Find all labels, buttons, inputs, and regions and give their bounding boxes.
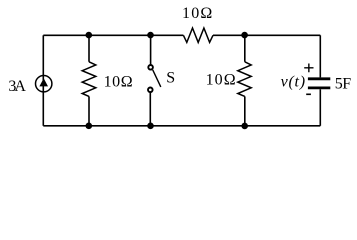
resistor R3 10ohm (vertical) (238, 62, 251, 97)
wire R3 bottom lead (244, 96, 246, 125)
svg-text:S: S (166, 70, 175, 87)
switch S top terminal (148, 65, 153, 70)
junction dot bottom of R3 (241, 123, 248, 130)
wire R1 bottom lead (88, 96, 90, 125)
svg-text:5F: 5F (335, 75, 351, 92)
wire switch top lead (150, 35, 152, 64)
top wire (left corner to horizontal resistor) (43, 34, 183, 36)
svg-text:10Ω: 10Ω (104, 74, 133, 91)
wire switch bottom lead (149, 93, 151, 126)
polarity plus sign (304, 64, 313, 73)
junction dot top of switch (147, 32, 154, 39)
switch S bottom terminal (148, 88, 153, 93)
bottom wire (43, 125, 320, 127)
current source I1 circle (36, 76, 52, 92)
wire R1 top lead (88, 35, 90, 62)
svg-text:v(t): v(t) (281, 73, 306, 90)
wire R3 top lead (244, 35, 246, 62)
capacitor C1 top plate (308, 77, 330, 80)
wire capacitor bottom lead (319, 89, 321, 126)
capacitor C1 bottom plate (308, 87, 330, 90)
resistor R2 10ohm (horizontal, top) (183, 28, 213, 42)
current source I1 arrow (39, 78, 48, 86)
junction dot top of R1 (86, 32, 93, 39)
wire capacitor top lead (319, 35, 321, 77)
wire left branch (current source leads) (42, 35, 44, 126)
svg-text:10Ω: 10Ω (206, 72, 236, 89)
resistor R1 10ohm (vertical) (82, 62, 96, 97)
junction dot bottom of R1 (86, 123, 93, 130)
switch S blade (153, 70, 161, 87)
svg-text:10Ω: 10Ω (182, 5, 212, 22)
top wire (horizontal resistor to right corner) (213, 34, 320, 36)
svg-text:3A: 3A (8, 78, 26, 95)
junction dot top of R3 (241, 32, 248, 39)
polarity minus sign (306, 93, 311, 95)
junction dot bottom of switch (147, 123, 154, 130)
